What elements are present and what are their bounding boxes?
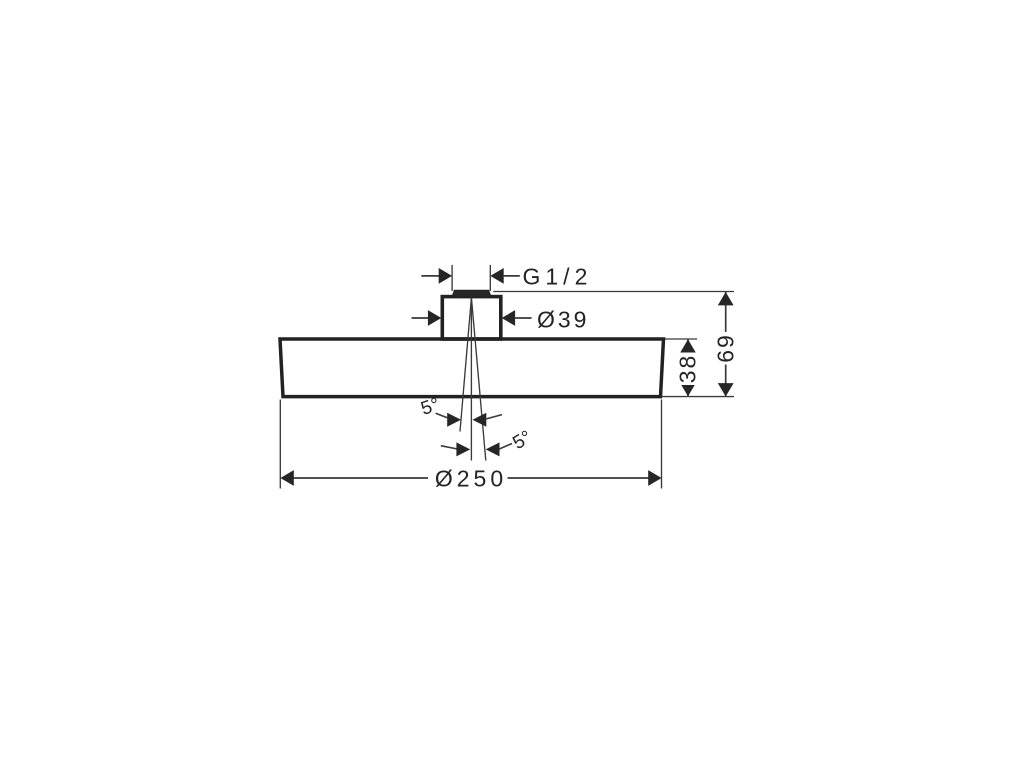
- body top extension line to 38 dim: [665, 338, 697, 340]
- diameter 250 extension line right: [661, 400, 663, 489]
- upper 5deg leader left: [436, 413, 448, 418]
- spray right 5deg line: [471, 298, 485, 461]
- cap top extension line to 69 dim: [493, 291, 734, 293]
- upper 5deg right arrow: [473, 413, 487, 427]
- diameter 39 dimension text: [537, 307, 589, 333]
- svg-text:Ø39: Ø39: [537, 307, 589, 333]
- 69 dimension line with arrows: [718, 292, 734, 397]
- body bottom extension line to 69 dim: [662, 396, 734, 398]
- svg-text:38: 38: [675, 354, 701, 384]
- 69 dimension text (rotated): [713, 332, 739, 365]
- lower 5deg left arrow: [456, 442, 470, 456]
- spray center line: [470, 298, 472, 461]
- upper 5deg label: [418, 394, 442, 420]
- lower 5deg leader right: [499, 444, 512, 450]
- diameter 39 right arrow with tail: [502, 310, 532, 326]
- upper 5deg left arrow: [447, 413, 461, 427]
- G1/2 right arrow with tail: [490, 268, 520, 284]
- lower 5deg label: [509, 427, 535, 454]
- connector block: [442, 297, 501, 339]
- diameter 250 dimension text: [435, 466, 507, 492]
- G1/2 left arrow with tail: [421, 268, 452, 284]
- lower 5deg leader left: [441, 446, 457, 449]
- diameter 250 dimension line with arrows: [280, 470, 661, 486]
- shower head body (side view trapezoid): [280, 339, 664, 397]
- spray left 5deg line: [460, 298, 471, 432]
- diameter 250 extension line left: [279, 400, 281, 489]
- G1/2 extension line left: [451, 265, 453, 291]
- svg-text:69: 69: [713, 333, 739, 363]
- diameter 39 left arrow with tail: [412, 310, 442, 326]
- 38 dimension line with arrows: [680, 339, 696, 396]
- svg-text:5°: 5°: [509, 427, 535, 454]
- G1/2 extension line right: [489, 265, 491, 291]
- G1/2 dimension text: [523, 264, 593, 290]
- 38 dimension text (rotated): [675, 353, 701, 386]
- svg-text:Ø250: Ø250: [435, 466, 507, 492]
- svg-text:G1/2: G1/2: [523, 264, 593, 290]
- upper 5deg leader right: [486, 415, 502, 419]
- lower 5deg right arrow: [486, 442, 500, 456]
- threaded cap G1/2 (filled): [452, 290, 492, 297]
